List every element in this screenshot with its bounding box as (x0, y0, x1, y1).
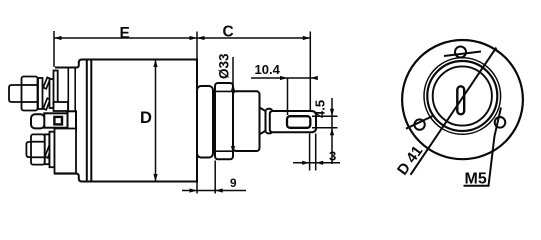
svg-text:4.5: 4.5 (313, 100, 328, 118)
svg-text:D: D (140, 109, 152, 127)
svg-text:E: E (120, 25, 130, 42)
svg-text:M5: M5 (465, 170, 487, 187)
svg-text:10.4: 10.4 (255, 62, 281, 77)
svg-text:9: 9 (230, 176, 237, 190)
svg-text:3: 3 (329, 148, 336, 163)
svg-text:C: C (223, 24, 234, 41)
svg-text:Ø33: Ø33 (217, 53, 232, 79)
